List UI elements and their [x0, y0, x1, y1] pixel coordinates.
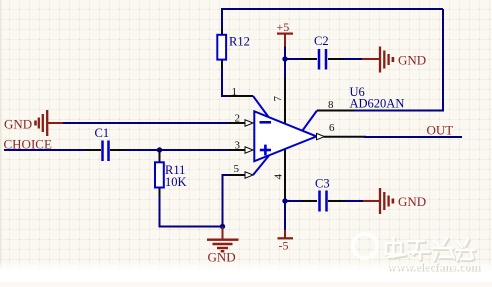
wire +5 stem to junction — [284, 47, 286, 61]
svg-text:10K: 10K — [165, 175, 187, 189]
capacitor C3 — [301, 191, 346, 212]
wire C2 to GND port — [344, 58, 363, 60]
wire left GND to pin 2 — [63, 122, 228, 124]
node junction at -5 rail — [282, 198, 287, 203]
pin 5 arrow — [245, 172, 253, 178]
svg-text:8: 8 — [328, 99, 334, 111]
svg-text:C1: C1 — [95, 126, 110, 140]
pin 5 diagonal lead — [253, 156, 269, 176]
pin 3 stub — [226, 149, 246, 151]
pin 5 stub — [226, 174, 246, 176]
wire R11 bottom to ground junction — [160, 196, 223, 227]
wire right vertical down to pin 8 — [442, 9, 444, 111]
svg-text:2: 2 — [235, 113, 241, 125]
node junction at ground — [220, 224, 225, 229]
capacitor C1 — [85, 141, 127, 162]
wire top horizontal R12-top to right rail — [222, 8, 443, 10]
svg-text:5: 5 — [234, 163, 240, 175]
svg-text:GND: GND — [398, 194, 426, 209]
wire CHOICE to C1 — [4, 149, 86, 151]
minus sign — [260, 121, 272, 124]
wire rail junction down to -5 — [284, 198, 286, 231]
svg-text:3: 3 — [235, 140, 241, 152]
pin 1 diagonal lead — [253, 96, 269, 117]
pin 6 stub — [324, 136, 366, 138]
wire pin 8 to right rail — [354, 110, 444, 112]
svg-text:4: 4 — [273, 174, 285, 180]
pin 3 arrow — [245, 147, 253, 153]
pin 8 stub — [317, 110, 356, 112]
wire R12 top stub — [221, 8, 223, 30]
pin 2 stub — [226, 122, 246, 124]
wire junction to C2 — [285, 58, 302, 60]
pin 6 arrow — [317, 133, 325, 139]
plus sign — [260, 149, 271, 152]
power port GND (right of C3) — [363, 188, 426, 214]
wire C3 to GND port — [345, 200, 364, 202]
svg-text:6: 6 — [329, 122, 335, 134]
power port GND (left, mirrored) — [36, 110, 65, 136]
resistor R11 — [155, 150, 164, 197]
ground (signal GND bottom) — [207, 227, 239, 265]
svg-text:AD620AN: AD620AN — [350, 97, 405, 111]
bottom white fade — [0, 261, 492, 282]
power port -5 — [278, 230, 294, 253]
svg-text:GND: GND — [398, 53, 426, 68]
svg-text:1: 1 — [232, 86, 238, 98]
watermark text 电子发烧友 — [386, 238, 475, 262]
power port +5 — [277, 20, 294, 48]
wire C1 to pin 3 — [126, 149, 228, 151]
svg-text:OUT: OUT — [427, 123, 454, 138]
svg-text:R12: R12 — [229, 35, 250, 49]
pin 1 stub (black) — [228, 95, 253, 97]
watermark text www.elecfans.com — [387, 260, 482, 275]
svg-text:-5: -5 — [279, 239, 289, 253]
wire R12 bottom to pin 1 — [222, 68, 252, 96]
power port GND (right of C2) — [362, 47, 426, 73]
pin 2 arrow — [245, 120, 253, 126]
pin 7 rail (black) — [284, 76, 286, 200]
pin 8 diagonal lead — [303, 111, 318, 131]
node junction on CHOICE wire — [157, 147, 162, 152]
svg-text:7: 7 — [272, 96, 284, 102]
wire junction to C3 — [285, 200, 302, 202]
wire pin 5 down to ground junction — [223, 175, 229, 227]
watermark logo circle — [353, 234, 377, 258]
resistor R12 — [217, 28, 226, 70]
node junction at +5 rail — [282, 56, 287, 61]
svg-text:GND: GND — [4, 117, 32, 132]
svg-text:C2: C2 — [314, 34, 329, 48]
svg-text:C3: C3 — [315, 177, 330, 191]
svg-text:+5: +5 — [277, 20, 290, 34]
svg-text:www.elecfans.com: www.elecfans.com — [387, 260, 480, 274]
op-amp U6 AD620AN — [226, 58, 366, 200]
triangle body — [254, 111, 316, 161]
wire pin 6 to OUT — [364, 136, 462, 138]
capacitor C2 — [301, 49, 345, 70]
